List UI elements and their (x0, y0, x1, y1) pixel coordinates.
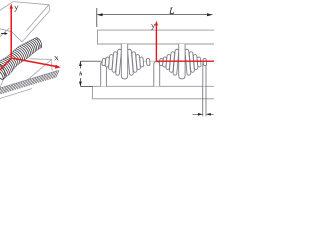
wave spring: center bottom anchor (154, 62, 160, 87)
x axis (12, 58, 61, 69)
top plate (section) (98, 30, 215, 44)
thickness dimension t (bottom right) (193, 86, 214, 116)
right barrel (crest) loops (159, 44, 206, 79)
label h (80, 72, 82, 76)
x axis (right) (156, 60, 214, 62)
wave spring: right bottom anchor (203, 62, 206, 87)
left height dimension h (80, 61, 100, 86)
dimension L (97, 8, 213, 27)
bottom plate 3D slab (0, 59, 58, 99)
load arrow (1, 32, 8, 35)
y axis (right) (155, 21, 158, 61)
z axis (0, 58, 12, 70)
label y (right) (151, 24, 155, 30)
label y (left) (15, 6, 18, 12)
left barrel (crest) loops (102, 44, 150, 79)
hatching on bottom plate front band (0, 70, 59, 95)
y axis (10, 4, 13, 58)
top plate 3D slab (0, 2, 50, 42)
label L (170, 8, 174, 14)
bottom plate (section) (92, 86, 214, 99)
midline of wave spring (80, 60, 214, 62)
label x (left) (55, 56, 58, 60)
wave spring: left bottom anchor (101, 62, 107, 87)
wave washer (coil ring between plates) (0, 38, 42, 81)
